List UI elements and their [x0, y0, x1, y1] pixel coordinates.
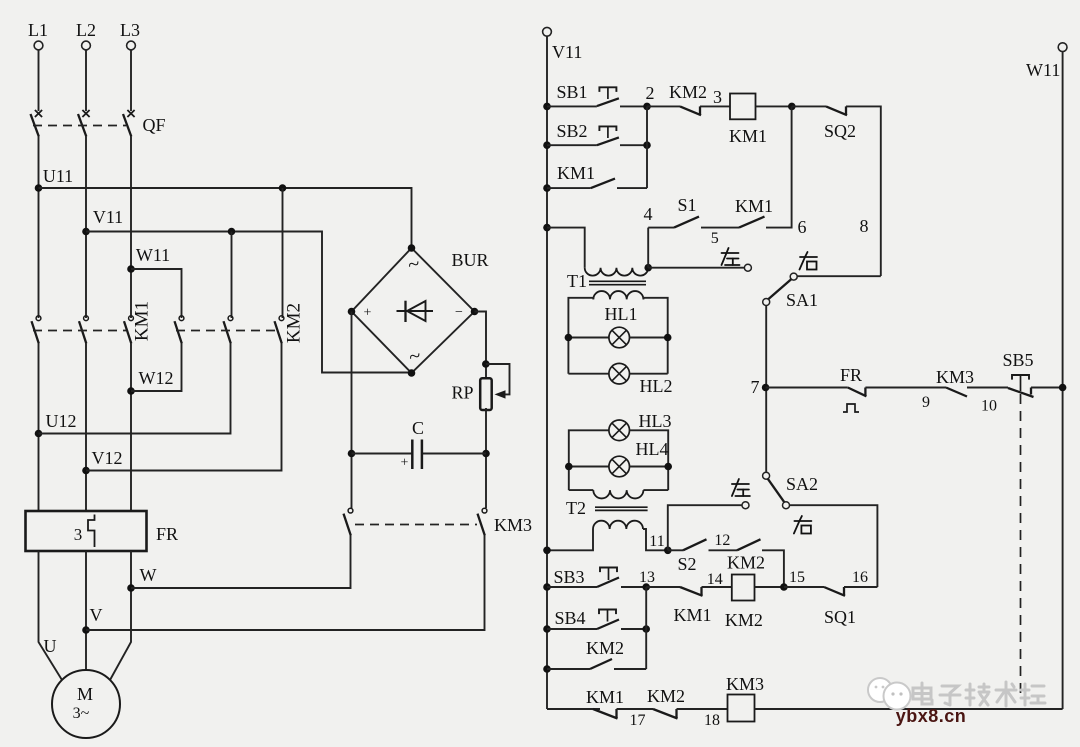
svg-text:HL2: HL2 [640, 376, 673, 396]
contactor KM2 pole 3 [275, 316, 284, 344]
KM1 label vertical [132, 301, 153, 341]
rectifier bridge BUR [348, 244, 489, 377]
watermark text dianzi-jishu-kong [913, 682, 1045, 706]
contact KM1 bottom [586, 687, 653, 729]
svg-text:3~: 3~ [73, 705, 90, 722]
svg-text:ybx8.cn: ybx8.cn [896, 706, 967, 726]
selector SA1 [722, 248, 819, 310]
node W [127, 565, 156, 592]
wire rail to T1 primary [547, 228, 585, 268]
bridge diode [397, 301, 434, 322]
wire U phase QF to KM1 [38, 137, 40, 319]
wire V11 tap to KM2 pole2 [231, 232, 233, 319]
wire bridge minus to RP [475, 312, 487, 380]
node W11 [127, 245, 170, 273]
wire V phase to FR [85, 344, 87, 512]
node V [82, 605, 102, 634]
svg-text:U: U [44, 636, 57, 656]
contactor KM1 pole 3 [124, 316, 133, 344]
wire T2 primary left to rail [543, 529, 593, 554]
wire W phase QF down [130, 137, 132, 319]
button SB5 [967, 350, 1063, 397]
svg-text:HL3: HL3 [639, 411, 672, 431]
wire node2 column [646, 106, 648, 188]
svg-text:V11: V11 [552, 42, 582, 62]
node V12 [82, 448, 122, 474]
svg-text:W12: W12 [139, 368, 174, 388]
svg-text:U12: U12 [46, 411, 77, 431]
switch S2 [668, 532, 737, 574]
coil KM3 [726, 674, 1063, 722]
node U12 [35, 411, 77, 437]
watermark url [896, 706, 967, 726]
svg-text:V: V [90, 605, 103, 625]
wire U12 jog to KM2 pole2 bottom [39, 344, 231, 434]
KM3 linkage dashed [355, 524, 477, 526]
svg-text:BUR: BUR [451, 250, 488, 270]
switch S1 [644, 195, 740, 247]
selector SA2 [732, 472, 818, 533]
node 11 [649, 533, 671, 554]
node 13 [639, 569, 655, 591]
svg-text:7: 7 [751, 377, 760, 397]
svg-text:3: 3 [713, 87, 722, 107]
breaker QF pole 2 [78, 110, 90, 137]
transformer T1 [567, 268, 648, 300]
svg-text:8: 8 [860, 216, 869, 236]
wire V12 jog to KM2 pole3 bottom [86, 344, 282, 471]
wire T2 primary right to node11 [643, 529, 668, 550]
svg-text:L3: L3 [120, 20, 140, 40]
svg-text:QF: QF [142, 115, 165, 135]
lamp HL1 [565, 304, 672, 348]
wire V phase QF to KM1 [85, 137, 87, 319]
KM1 linkage dashed [33, 330, 126, 332]
limit switch SQ2 [792, 106, 881, 276]
svg-text:KM3: KM3 [494, 515, 532, 535]
node 2 [643, 83, 654, 110]
wire SA1 common down [765, 306, 767, 472]
svg-text:KM1: KM1 [132, 301, 153, 341]
svg-text:4: 4 [644, 204, 653, 224]
coil KM2 [725, 575, 784, 631]
wire T1 to row4 [647, 228, 649, 268]
wire W12 jog to KM2 pole1 bottom [131, 344, 182, 392]
contact KM2 NC [647, 82, 730, 115]
svg-text:6: 6 [798, 217, 807, 237]
SB5 linkage dashed [1020, 394, 1022, 700]
svg-text:11: 11 [649, 533, 664, 550]
coil KM1 [729, 94, 792, 147]
svg-text:V12: V12 [92, 448, 123, 468]
node W12 [127, 368, 173, 395]
svg-text:13: 13 [639, 569, 655, 586]
node rail FR row [1059, 384, 1067, 392]
svg-text:2: 2 [646, 83, 655, 103]
svg-text:KM2: KM2 [647, 686, 685, 706]
svg-text:T1: T1 [567, 271, 587, 291]
breaker QF pole 3 [123, 110, 135, 137]
contactor KM3 pole right [478, 508, 487, 535]
contactor KM3 pole left [344, 508, 353, 535]
KM3 label [494, 515, 532, 535]
terminal L2 [76, 20, 96, 50]
button SB3 [543, 567, 646, 591]
svg-text:KM1: KM1 [557, 163, 595, 183]
node U11 [35, 166, 73, 192]
node 7 [751, 377, 770, 397]
svg-text:18: 18 [704, 712, 720, 729]
wire RP to cap line [482, 408, 490, 508]
svg-text:HL4: HL4 [636, 439, 669, 459]
node coil-SQ2 [788, 103, 796, 111]
wire W11 jog to KM2 pole1 [131, 269, 182, 318]
svg-text:HL1: HL1 [605, 304, 638, 324]
svg-text:KM1: KM1 [586, 687, 624, 707]
contact KM2 bottom [647, 686, 728, 729]
wire U phase to FR [38, 344, 40, 512]
wire rail bottom corner [547, 708, 600, 710]
svg-text:L2: L2 [76, 20, 96, 40]
svg-text:L1: L1 [28, 20, 48, 40]
wire W line to KM3 left [131, 536, 351, 589]
svg-text:SQ1: SQ1 [824, 607, 856, 627]
svg-text:14: 14 [707, 571, 723, 588]
motor M 3ph [52, 670, 120, 738]
svg-text:S2: S2 [677, 554, 696, 574]
contact KM2 row11 [727, 539, 784, 587]
svg-text:KM2: KM2 [725, 610, 763, 630]
terminal V11 control [543, 27, 583, 62]
svg-text:9: 9 [922, 394, 930, 411]
contact KM3 aux [936, 367, 997, 415]
svg-text:U11: U11 [43, 166, 73, 186]
svg-text:KM2: KM2 [284, 303, 305, 343]
svg-text:SQ2: SQ2 [824, 121, 856, 141]
svg-text:KM2: KM2 [727, 553, 765, 573]
contact KM1 seal-in [543, 163, 647, 192]
wire T1 secondary loop [568, 298, 667, 374]
svg-text:FR: FR [156, 524, 178, 544]
wire L1 drop [38, 50, 40, 111]
svg-text:KM1: KM1 [673, 605, 711, 625]
wire node13 column [645, 587, 647, 669]
svg-text:17: 17 [630, 712, 646, 729]
svg-text:SB1: SB1 [556, 82, 587, 102]
svg-text:KM1: KM1 [729, 126, 767, 146]
wire W FR to motor [110, 551, 131, 680]
wire U FR to motor [39, 551, 63, 680]
svg-text:3: 3 [74, 525, 83, 544]
svg-text:C: C [412, 418, 424, 438]
svg-text:W11: W11 [1026, 60, 1060, 80]
wire control left rail [546, 36, 548, 709]
wire V11 bus [86, 228, 408, 373]
svg-text:10: 10 [981, 398, 997, 415]
svg-text:FR: FR [840, 365, 862, 385]
svg-text:KM2: KM2 [669, 82, 707, 102]
svg-text:15: 15 [789, 569, 805, 586]
KM2 label vertical [284, 303, 305, 343]
lamp HL4 [565, 439, 672, 477]
thermal relay FR box [26, 511, 179, 551]
wire U11 tap to KM2 pole3 [282, 188, 284, 318]
svg-text:12: 12 [714, 532, 730, 549]
svg-text:SA1: SA1 [786, 290, 818, 310]
svg-text:KM1: KM1 [735, 196, 773, 216]
breaker QF pole 1 [31, 110, 43, 137]
svg-text:SA2: SA2 [786, 474, 818, 494]
wire bridge plus rail [351, 312, 353, 509]
svg-text:S1: S1 [677, 195, 696, 215]
svg-text:SB3: SB3 [553, 567, 584, 587]
terminal L1 [28, 20, 48, 50]
svg-text:W: W [140, 565, 157, 585]
svg-text:T2: T2 [566, 498, 586, 518]
QF linkage dashed [33, 125, 126, 127]
wire SA2 right to SQ1 drop [790, 505, 878, 587]
svg-text:SB5: SB5 [1002, 350, 1033, 370]
terminal L3 [120, 20, 140, 50]
node V11 [82, 207, 123, 235]
svg-text:−: − [455, 305, 463, 320]
button SB4 [543, 608, 650, 633]
button SB1 [543, 82, 647, 110]
contact FR thermal [766, 365, 946, 412]
contact KM2 seal-in [543, 638, 646, 673]
svg-text:V11: V11 [93, 207, 123, 227]
QF label [142, 115, 165, 135]
wire V FR to motor [85, 551, 87, 670]
wire L2 drop [85, 50, 87, 111]
lamp HL3 [569, 411, 672, 490]
wire W phase to FR [130, 344, 132, 512]
node RP wiper junction [482, 360, 490, 368]
wire U11 bus [39, 184, 412, 245]
svg-text:5: 5 [711, 230, 719, 247]
button SB2 [543, 121, 651, 149]
wire T1 to SA1 left [648, 267, 744, 269]
contact KM1 row4 [735, 106, 807, 237]
svg-text:KM3: KM3 [936, 367, 974, 387]
contactor KM1 pole 2 [79, 316, 88, 344]
potentiometer RP [451, 364, 509, 410]
node plus-cap junction [348, 450, 356, 458]
transformer T2 [566, 490, 668, 529]
wire L3 drop [130, 50, 132, 111]
lamp HL2 [568, 363, 672, 396]
svg-text:KM3: KM3 [726, 674, 764, 694]
capacitor C [352, 418, 487, 471]
svg-text:M: M [77, 684, 93, 704]
wire SA1 right to SQ2 drop [797, 216, 881, 276]
contactor KM2 pole 1 [175, 316, 184, 344]
svg-text:RP: RP [451, 383, 473, 403]
contactor KM1 pole 1 [32, 316, 41, 344]
svg-text:SB2: SB2 [556, 121, 587, 141]
svg-text:+: + [401, 456, 409, 471]
limit switch SQ1 [784, 569, 878, 627]
contactor KM2 pole 2 [224, 316, 233, 344]
KM2 linkage dashed [176, 330, 276, 332]
node 15 [780, 569, 805, 591]
svg-text:+: + [364, 306, 372, 321]
node rail T1 tap [543, 224, 551, 232]
wire V line to KM3 right [86, 536, 485, 631]
contact KM1 row13 [646, 571, 732, 625]
svg-text:KM2: KM2 [586, 638, 624, 658]
node T1 right [644, 264, 652, 272]
wire right rail W11 [1026, 43, 1067, 709]
watermark icon [868, 678, 911, 710]
wire node11 to SA2 left [668, 505, 742, 550]
svg-text:W11: W11 [136, 245, 170, 265]
svg-text:SB4: SB4 [554, 608, 585, 628]
svg-text:16: 16 [852, 569, 868, 586]
